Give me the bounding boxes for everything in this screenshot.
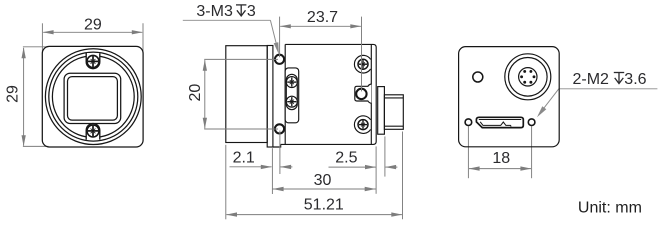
svg-text:2.5: 2.5	[335, 149, 357, 166]
svg-text:30: 30	[314, 172, 332, 189]
svg-text:3.6: 3.6	[624, 71, 646, 88]
svg-text:2-M2: 2-M2	[573, 71, 610, 88]
svg-text:20: 20	[187, 84, 204, 102]
svg-text:29: 29	[84, 17, 102, 34]
svg-text:3-M3: 3-M3	[196, 3, 233, 20]
svg-text:2.1: 2.1	[233, 150, 255, 167]
svg-text:Unit: mm: Unit: mm	[578, 200, 642, 217]
svg-text:29: 29	[5, 85, 22, 103]
svg-text:3: 3	[247, 3, 256, 20]
svg-text:51.21: 51.21	[304, 197, 344, 214]
svg-text:23.7: 23.7	[307, 9, 338, 26]
svg-text:18: 18	[492, 150, 510, 167]
